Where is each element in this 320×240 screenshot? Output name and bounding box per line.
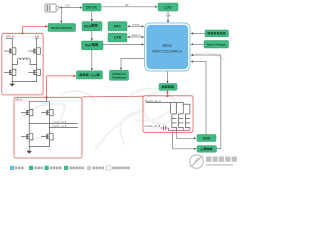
wire right leg top bbox=[36, 39, 38, 48]
battery / power source icon bbox=[45, 4, 59, 12]
red wire buck-boost to bridge box bbox=[21, 25, 48, 34]
wire MCU to console bbox=[120, 59, 145, 71]
wire temperature sense to MCU bbox=[191, 32, 206, 34]
wire bridge input bbox=[46, 98, 48, 102]
svg-text:DDM: DDM bbox=[203, 137, 211, 141]
svg-text:DC-DC: DC-DC bbox=[86, 6, 97, 10]
transistor Q5 bbox=[21, 109, 33, 115]
op-amp U1 MCU MWCT1013AVLH bbox=[145, 23, 191, 71]
svg-text:MCU: MCU bbox=[84, 25, 92, 29]
wire battery to DC-DC bbox=[59, 7, 83, 9]
red wire detect gating to coil box bbox=[166, 90, 168, 97]
wire mid legs bbox=[11, 65, 13, 70]
block Rail power bbox=[82, 41, 104, 50]
coil box bbox=[143, 96, 193, 133]
watermark swirl center bbox=[20, 53, 225, 151]
block CAN bbox=[108, 33, 127, 42]
wire DDM riser to MCU bbox=[191, 60, 207, 134]
svg-text:MWCT1013AVLH: MWCT1013AVLH bbox=[152, 49, 182, 53]
svg-text:LDO: LDO bbox=[164, 5, 172, 9]
wire Q sense riser to MCU bbox=[191, 54, 221, 149]
block temperature sense bbox=[205, 30, 229, 37]
block DC-DC bbox=[83, 4, 102, 12]
svg-text:CONSOLE: CONSOLE bbox=[112, 72, 125, 76]
wire CAN to MCU bidirectional bbox=[127, 36, 144, 38]
wire coil tap to Q sense bbox=[172, 131, 196, 150]
wire switch node right bbox=[30, 60, 36, 65]
wire left leg top bbox=[11, 39, 13, 48]
block BUCK-BOOST bbox=[48, 24, 76, 32]
wire bridge top bus bbox=[29, 101, 49, 103]
svg-text:3.3V: 3.3V bbox=[165, 14, 171, 18]
wire bottom bus bbox=[12, 76, 36, 82]
transistor Q1 bbox=[4, 48, 16, 54]
wire battery branch down to BUCK-BOOST bbox=[60, 8, 62, 24]
buck-boost power stage box bbox=[2, 33, 43, 95]
svg-text:MOS: MOS bbox=[90, 73, 97, 77]
transistor Q7 bbox=[21, 134, 33, 140]
node SW bbox=[35, 36, 40, 39]
wire legs to bottom fets bbox=[28, 123, 30, 133]
block MCU power bbox=[82, 22, 102, 31]
block Q sense bbox=[197, 146, 217, 153]
svg-text:CANRx/Tx: CANRx/Tx bbox=[131, 34, 142, 37]
svg-text:Inverter_out_A: Inverter_out_A bbox=[52, 120, 67, 123]
wire inverter out A bbox=[29, 116, 78, 124]
wire DC-DC to LDO bbox=[101, 6, 158, 8]
svg-text:Inverter_out_B: Inverter_out_B bbox=[52, 125, 67, 128]
inductor L1 bbox=[17, 58, 30, 60]
wire coil top bus bbox=[146, 103, 171, 114]
block LDO bbox=[158, 3, 178, 11]
block NFC bbox=[108, 22, 127, 32]
ground bbox=[26, 147, 32, 154]
coil L2 bbox=[172, 114, 177, 131]
wire DC-DC down to MCU power bbox=[91, 11, 93, 22]
node BAT_IN bbox=[6, 36, 14, 39]
wire bridge bottom bus bbox=[29, 140, 49, 147]
transistor Q2 bbox=[28, 48, 40, 54]
legend row bbox=[10, 166, 130, 170]
wire Rail power down to bridge driver bbox=[91, 50, 93, 71]
wire input voltage to MCU bbox=[191, 43, 205, 45]
svg-text:5V: 5V bbox=[125, 3, 129, 7]
wire NFC to MCU bidirectional bbox=[127, 25, 144, 27]
ground bbox=[9, 82, 15, 87]
wire Rail power to MCU bbox=[103, 43, 144, 45]
svg-text:SW_B: SW_B bbox=[15, 98, 22, 101]
block console freemaster bbox=[110, 70, 129, 80]
transistor Q8 bbox=[41, 134, 53, 140]
wire coil tap to DDM bbox=[176, 131, 196, 140]
svg-text:12V: 12V bbox=[65, 3, 70, 7]
block detect gating bbox=[159, 84, 177, 91]
svg-text:NFC: NFC bbox=[114, 25, 122, 29]
block input voltage bbox=[204, 41, 229, 49]
svg-text:SPI/INT: SPI/INT bbox=[132, 24, 140, 26]
block bridge driver bbox=[77, 71, 103, 79]
svg-text:Rail: Rail bbox=[85, 44, 91, 48]
wire MCU down to detect gating bbox=[166, 71, 168, 84]
svg-text:FreeMaster: FreeMaster bbox=[112, 75, 126, 79]
svg-text:Inverter_out_B: Inverter_out_B bbox=[145, 125, 161, 128]
watermark logo bottom right bbox=[190, 155, 237, 169]
transistor Q3 bbox=[4, 69, 16, 75]
red wire bridge driver to inverter box bbox=[46, 75, 77, 99]
node junction on battery wire bbox=[61, 7, 63, 9]
full-bridge inverter box bbox=[14, 97, 82, 158]
svg-text:Input Voltage: Input Voltage bbox=[207, 42, 226, 46]
svg-text:CAN: CAN bbox=[114, 36, 122, 40]
wire coil bottom bus bbox=[167, 128, 190, 131]
wire inverter out B bbox=[49, 116, 78, 128]
svg-text:MCU: MCU bbox=[163, 43, 173, 48]
transistor Q6 bbox=[41, 109, 53, 115]
transistor Q4 bbox=[28, 69, 40, 75]
wire LDO down to MCU bbox=[167, 11, 169, 23]
svg-text:BUCK-BOOST: BUCK-BOOST bbox=[51, 26, 72, 30]
block DDM bbox=[197, 135, 216, 142]
coil L4 bbox=[185, 114, 190, 131]
coil L3 bbox=[179, 114, 184, 131]
wire MCU power down to Rail power bbox=[91, 31, 93, 41]
wire switch node left bbox=[12, 54, 17, 64]
capacitor C1 bbox=[161, 126, 168, 131]
red wire inverter box to coil box bbox=[82, 95, 143, 98]
